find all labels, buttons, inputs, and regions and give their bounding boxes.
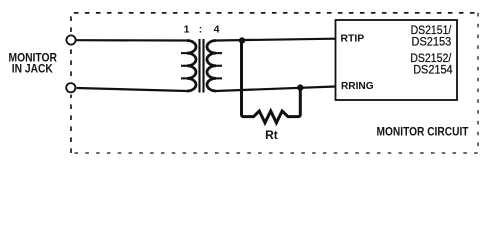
svg-text:DS2154: DS2154: [413, 64, 453, 76]
svg-text:DS2152/: DS2152/: [410, 53, 452, 65]
svg-text:RRING: RRING: [341, 80, 374, 92]
svg-text:Rt: Rt: [265, 130, 278, 142]
svg-text:MONITOR CIRCUIT: MONITOR CIRCUIT: [377, 125, 470, 139]
svg-text:RTIP: RTIP: [341, 33, 365, 45]
svg-text:4: 4: [214, 23, 220, 35]
svg-text:IN JACK: IN JACK: [12, 62, 53, 76]
svg-text:DS2151/: DS2151/: [411, 25, 452, 37]
svg-text:1: 1: [184, 23, 190, 35]
svg-text:DS2153: DS2153: [412, 36, 452, 48]
svg-text::: :: [199, 23, 203, 35]
